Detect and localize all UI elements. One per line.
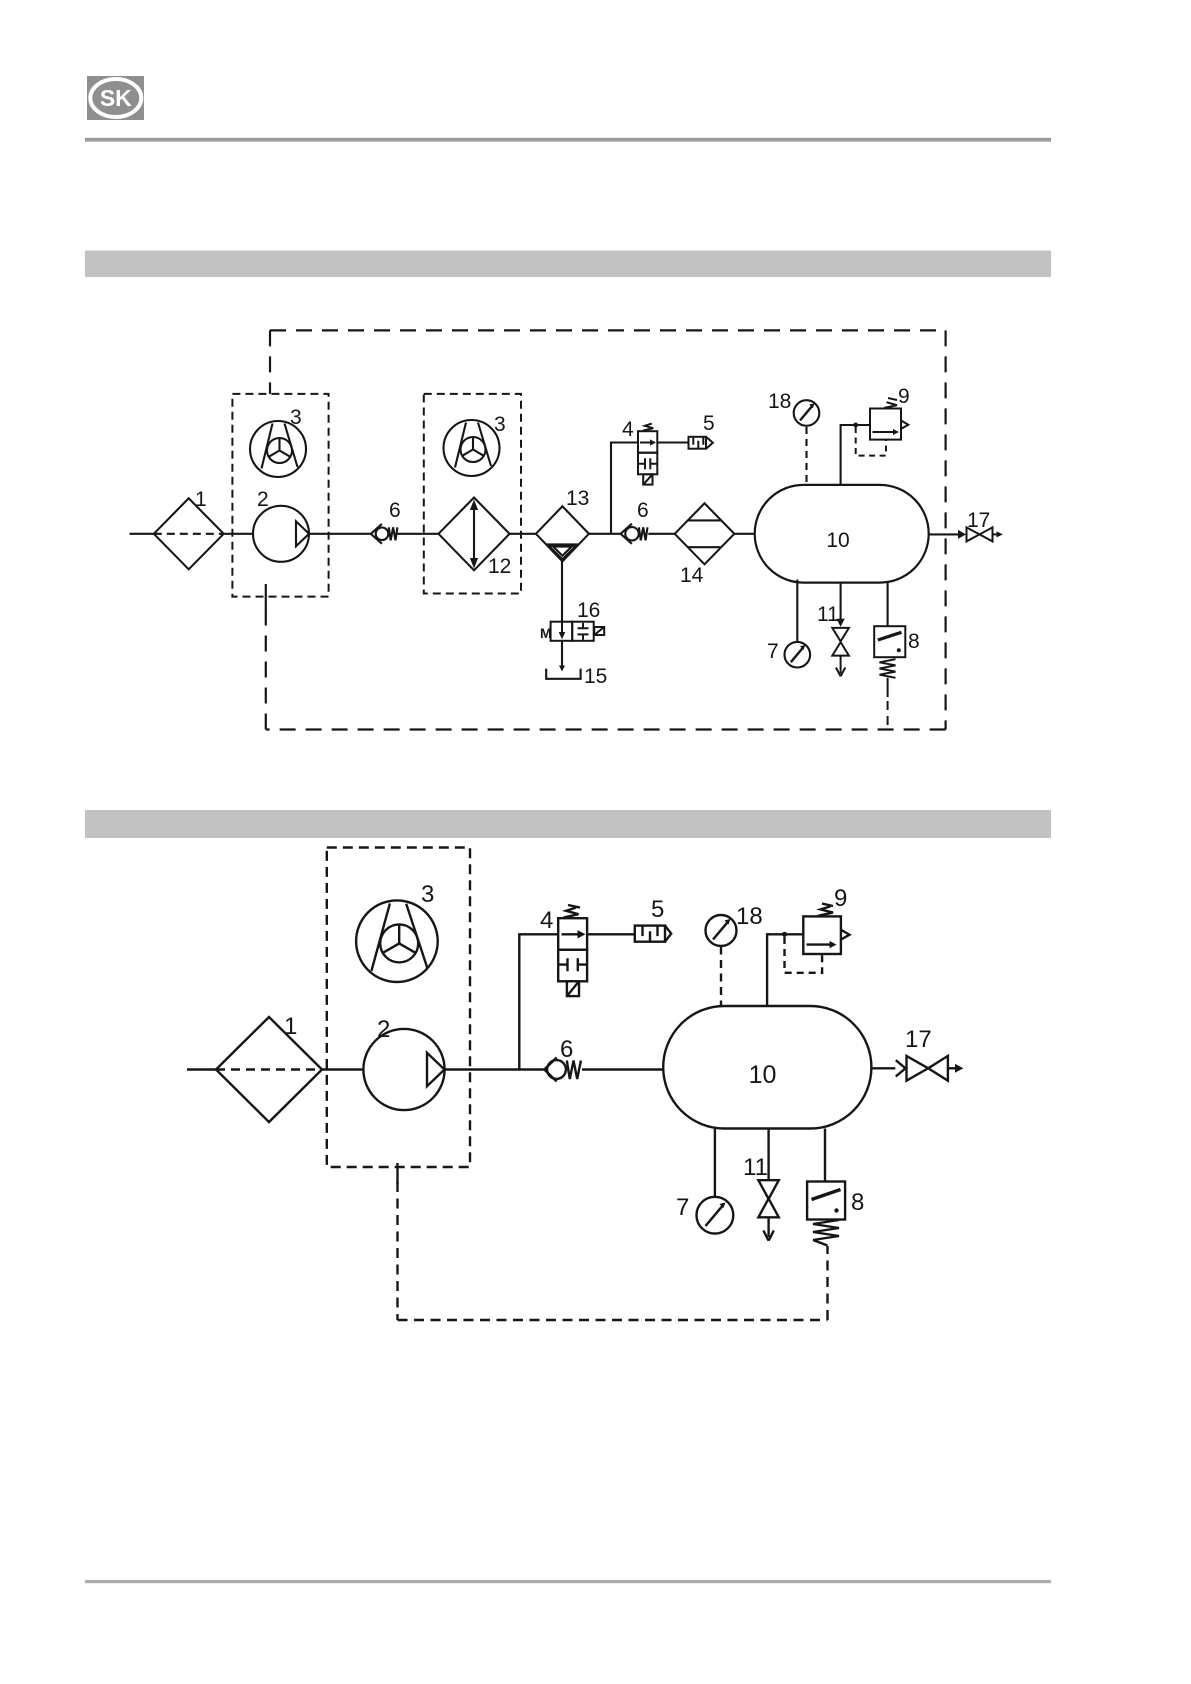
svg-text:8: 8 xyxy=(908,630,920,653)
fine filter 14 xyxy=(675,503,735,587)
svg-text:M: M xyxy=(540,625,552,641)
control line motor box to pressure switch (d2) xyxy=(398,1163,828,1320)
wire inlet (d2) xyxy=(187,1068,216,1070)
fan motor 3 (cooler group) xyxy=(444,413,506,476)
wire separator to check valve 6b with junction xyxy=(589,533,621,535)
svg-text:8: 8 xyxy=(851,1189,864,1216)
fan motor 3 (left group) xyxy=(250,406,306,477)
check valve 6 (first) xyxy=(371,499,401,544)
wire tank down to valve 11 xyxy=(840,583,842,621)
check valve 6 (d2) xyxy=(544,1036,581,1082)
svg-text:5: 5 xyxy=(651,896,664,923)
wire tank down to pressure switch 8 (d2) xyxy=(824,1129,826,1182)
svg-text:14: 14 xyxy=(680,564,704,587)
wire filter1 to pump xyxy=(224,533,253,535)
svg-text:6: 6 xyxy=(637,499,649,522)
wire pump to check valve (d2) xyxy=(445,1068,545,1070)
svg-text:5: 5 xyxy=(703,412,715,435)
wire valve 4 to muffler 5 xyxy=(657,441,688,443)
pressure gauge 7 xyxy=(767,640,810,668)
svg-text:10: 10 xyxy=(826,529,849,552)
pressure regulator 9 (d2) xyxy=(785,885,850,973)
compressor pump 2 (d2) xyxy=(363,1016,444,1110)
wire check valve to tank (d2) xyxy=(582,1068,663,1070)
svg-text:18: 18 xyxy=(768,390,791,413)
aftercooler 12 xyxy=(439,498,512,579)
wire tank to regulator 9 (d2) xyxy=(767,934,803,1006)
svg-text:16: 16 xyxy=(577,599,600,622)
svg-text:17: 17 xyxy=(905,1026,932,1053)
wire check valve to filter 14 xyxy=(648,533,674,535)
unloader valve 4 xyxy=(622,418,657,485)
air receiver tank 10 xyxy=(755,485,929,583)
svg-text:4: 4 xyxy=(540,907,553,934)
pressure regulator 9 xyxy=(856,385,910,456)
fan motor 3 (d2) xyxy=(356,881,438,982)
wire tank to regulator 9 xyxy=(841,425,870,485)
wire cooler to separator xyxy=(510,533,536,535)
svg-text:3: 3 xyxy=(494,413,506,436)
muffler 5 (d2) xyxy=(635,896,671,942)
muffler 5 xyxy=(689,412,715,449)
wire tank to outlet valve 17 (d2) xyxy=(871,1067,895,1069)
air receiver tank 10 (d2) xyxy=(663,1006,871,1129)
svg-text:11: 11 xyxy=(743,1154,768,1181)
wire tank down to pressure switch 8 xyxy=(887,583,889,627)
svg-text:15: 15 xyxy=(584,665,607,688)
svg-text:1: 1 xyxy=(195,488,207,511)
wire valve 4 to muffler 5 (d2) xyxy=(587,933,635,935)
svg-text:17: 17 xyxy=(967,509,990,532)
wire tank down to valve 11 (d2) xyxy=(767,1129,769,1181)
svg-text:18: 18 xyxy=(736,903,763,930)
water separator 13 xyxy=(536,487,589,561)
wire filter to pump (d2) xyxy=(322,1068,363,1070)
enclosure dashed box (unit boundary) xyxy=(266,330,946,729)
drain valve 11 (d2) xyxy=(743,1154,779,1241)
pressure switch 8 xyxy=(874,626,919,729)
wire check valve to cooler group xyxy=(397,533,438,535)
drain valve 11 xyxy=(817,603,849,676)
solenoid drain valve 16 xyxy=(540,599,604,641)
motor-cooler group dashed box xyxy=(424,394,521,594)
shut-off valve 17 xyxy=(967,509,1004,541)
filter 1 (intake filter) xyxy=(154,488,224,569)
svg-text:4: 4 xyxy=(622,418,634,441)
svg-text:2: 2 xyxy=(257,488,269,511)
motor-pump dashed box (d2) xyxy=(327,848,470,1168)
footer rule xyxy=(85,1580,1051,1583)
open flow arrow (d2) xyxy=(896,1060,906,1076)
junction dot xyxy=(853,423,858,428)
svg-text:9: 9 xyxy=(834,885,847,912)
svg-text:7: 7 xyxy=(767,640,779,663)
wire tank down to gauge 7 xyxy=(796,580,798,643)
pressure gauge 18 (d2) xyxy=(706,903,763,1006)
drain funnel 15 xyxy=(546,665,607,688)
wire separator down to drain valve 16 xyxy=(561,561,563,621)
svg-text:10: 10 xyxy=(749,1061,777,1089)
header rule xyxy=(85,138,1051,142)
svg-text:3: 3 xyxy=(421,881,434,908)
wire tank down to gauge 7 (d2) xyxy=(714,1127,716,1197)
shut-off valve 17 (d2) xyxy=(905,1026,964,1081)
SK logo badge xyxy=(87,76,144,120)
svg-text:9: 9 xyxy=(898,385,910,408)
compressor pump 2 xyxy=(253,488,309,562)
svg-text:SK: SK xyxy=(100,85,132,111)
svg-text:6: 6 xyxy=(389,499,401,522)
svg-text:3: 3 xyxy=(290,406,302,429)
wire tank to outlet valve 17 xyxy=(929,533,960,535)
section bar 1 xyxy=(85,251,1051,278)
motor-pump group dashed box xyxy=(232,394,328,597)
svg-text:13: 13 xyxy=(566,487,589,510)
svg-text:1: 1 xyxy=(284,1013,297,1040)
pressure switch 8 (d2) xyxy=(807,1182,864,1246)
wire valve 16 to drain 15 xyxy=(561,641,563,669)
pressure gauge 18 xyxy=(768,390,819,485)
wire branch to unloader valve 4 xyxy=(611,443,638,534)
flow arrow xyxy=(958,530,966,539)
unloader valve 4 (d2) xyxy=(540,905,587,996)
filter 1 (d2) xyxy=(216,1013,322,1122)
wire inlet xyxy=(130,533,154,535)
svg-text:11: 11 xyxy=(817,603,839,626)
wire branch to unloader valve 4 (d2) xyxy=(519,934,558,1069)
svg-text:7: 7 xyxy=(676,1194,689,1221)
check valve 6 (second) xyxy=(621,499,649,544)
wire filter 14 to tank xyxy=(734,533,754,535)
wire pump to check valve 6 xyxy=(309,533,371,535)
section bar 2 xyxy=(85,810,1051,838)
svg-text:2: 2 xyxy=(377,1016,390,1043)
svg-text:12: 12 xyxy=(488,555,511,578)
pressure gauge 7 (d2) xyxy=(676,1194,733,1234)
svg-text:6: 6 xyxy=(560,1036,573,1063)
junction dot (d2) xyxy=(782,932,787,937)
